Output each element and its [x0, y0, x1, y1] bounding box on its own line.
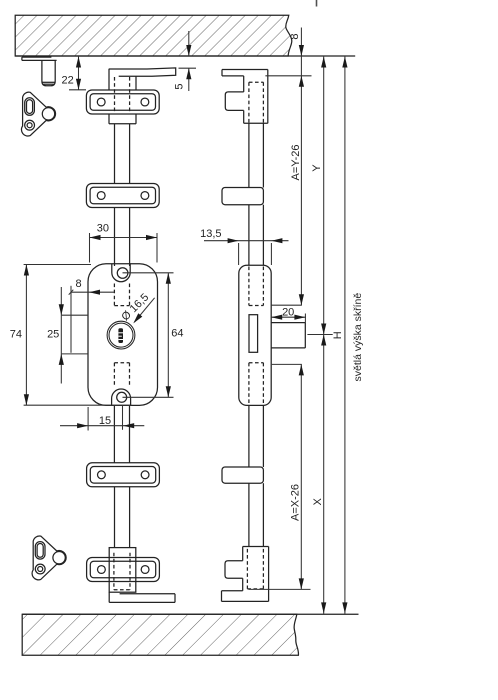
- dimension 74: [24, 265, 132, 406]
- svg-text:20: 20: [282, 307, 294, 319]
- dimension 8 left: [69, 286, 115, 353]
- svg-text:64: 64: [171, 328, 183, 340]
- hidden rod behind case top (dashed, side view): [249, 267, 264, 306]
- dimension 5: [179, 31, 197, 91]
- arrows H: [342, 57, 347, 68]
- bottom fitting block (side view): [243, 547, 269, 602]
- bottom fitting block (front view): [109, 548, 136, 593]
- locating peg: [42, 60, 55, 85]
- bottom panel (hatched section): [22, 614, 298, 655]
- svg-text:X: X: [312, 498, 324, 506]
- arrows 22: [76, 57, 81, 68]
- dimension 22: [69, 56, 86, 90]
- extension line at bottom panel top: [22, 613, 358, 615]
- bottom latch bar (side view): [222, 591, 269, 602]
- hidden rod inside case top (dashed): [114, 284, 129, 306]
- rod segment plate 2 to lock case: [115, 208, 130, 267]
- dimension A=Y-26: [265, 56, 311, 305]
- svg-text:8: 8: [75, 278, 81, 290]
- keeper bracket bottom: [32, 536, 66, 580]
- arrows 20: [271, 315, 282, 320]
- rod segment (side view) block to bracket 2: [249, 123, 264, 187]
- hidden rod in bottom block (dashed): [114, 553, 130, 590]
- svg-text:5: 5: [174, 83, 186, 89]
- svg-text:13,5: 13,5: [200, 228, 221, 240]
- bottom screw boss hole: [117, 392, 127, 402]
- guide bracket 1 flange (side view): [225, 92, 243, 111]
- arrows Y: [321, 57, 326, 68]
- svg-text:25: 25: [47, 329, 59, 341]
- guide plate 4: [87, 558, 160, 582]
- guide plate 3: [87, 463, 160, 487]
- dimension 13,5: [204, 241, 289, 265]
- rod segment block to plate 2: [115, 124, 130, 184]
- keyway slot (side view): [249, 315, 258, 353]
- svg-text:Y: Y: [311, 164, 323, 172]
- top fitting block (front view): [109, 69, 136, 124]
- svg-text:30: 30: [97, 223, 109, 235]
- rod segment (side view) case to bracket 3: [249, 405, 264, 467]
- svg-text:A=X-26: A=X-26: [290, 484, 302, 521]
- hidden rod behind top plate (dashed): [115, 77, 130, 113]
- bottom screw boss pocket: [112, 389, 131, 405]
- rod segment (side view) bracket 2 to case: [249, 205, 264, 266]
- svg-text:A=Y-26: A=Y-26: [290, 145, 302, 181]
- svg-text:15: 15: [99, 415, 111, 427]
- guide bracket 2 flange (side view): [222, 188, 263, 205]
- dimension 25: [60, 287, 62, 384]
- rod segment plate 3 to bottom block: [115, 487, 130, 548]
- rod segment (side view) bracket 3 to bottom block: [249, 483, 264, 546]
- arrow 8 left: [89, 290, 100, 295]
- arrows 8 right: [299, 45, 304, 56]
- top panel (hatched section): [15, 15, 292, 56]
- hidden rod in top block (dashed, side view): [249, 82, 264, 123]
- arrow A=Y-26 bottom: [299, 294, 304, 305]
- arrow leader 16,5: [133, 313, 142, 323]
- top screw boss pocket: [112, 264, 130, 282]
- top latch bar (front view): [109, 68, 176, 76]
- keeper bracket top: [21, 92, 55, 136]
- dimension 15: [60, 406, 144, 431]
- dimension texts: [10, 33, 364, 521]
- keyhole ring: [107, 321, 135, 349]
- hidden rod behind case bottom (dashed, side view): [249, 363, 264, 405]
- dimension A=X-26: [249, 364, 311, 589]
- dimension 8 right: [300, 28, 302, 57]
- side pocket on lock case: [61, 315, 88, 354]
- stray tick top right: [316, 0, 318, 7]
- leader line diameter 16,5: [135, 298, 155, 322]
- dimension line H: [344, 56, 346, 614]
- arrows 15: [77, 423, 88, 428]
- top fitting block (side view): [244, 70, 268, 124]
- dimension line Y and X: [307, 56, 332, 614]
- top screw boss hole: [117, 268, 128, 279]
- dimension 20: [271, 314, 306, 323]
- arrows 5: [186, 45, 191, 56]
- arrows X: [321, 335, 326, 346]
- svg-text:8: 8: [289, 33, 301, 39]
- hidden rod inside case bottom (dashed): [114, 363, 129, 386]
- arrows 25: [59, 304, 64, 315]
- svg-text:22: 22: [61, 75, 73, 87]
- arrows 30: [90, 235, 101, 240]
- lock case (side view): [239, 265, 271, 405]
- guide plate 1: [86, 90, 159, 114]
- arrows 13,5: [228, 238, 239, 243]
- hidden rod in bottom block (dashed, side view): [247, 549, 263, 589]
- dimension 30: [90, 233, 158, 263]
- top latch bar tongue (side view): [222, 70, 268, 76]
- bottom latch bar (front view): [109, 592, 175, 602]
- extension line at top panel underside: [15, 55, 355, 57]
- arrows A=X-26: [299, 364, 304, 375]
- arrowheads: [24, 45, 348, 613]
- dimension 64: [123, 273, 174, 398]
- arrows 74: [24, 265, 29, 276]
- svg-text:světlá výška skříně: světlá výška skříně: [352, 293, 364, 382]
- svg-text:H: H: [332, 331, 344, 339]
- guide bracket 4 flange (side view): [225, 561, 243, 579]
- lock case (front view): [88, 264, 158, 406]
- keyway slot: [118, 328, 123, 343]
- svg-text:74: 74: [10, 328, 22, 340]
- rod segment case to plate 3: [114, 406, 129, 463]
- mounting plate under top panel: [22, 57, 57, 60]
- guide bracket 3 flange (side view): [222, 467, 263, 483]
- arrows 64: [166, 273, 171, 284]
- guide plate 2: [86, 184, 159, 208]
- key cylinder nose (side view): [271, 323, 305, 348]
